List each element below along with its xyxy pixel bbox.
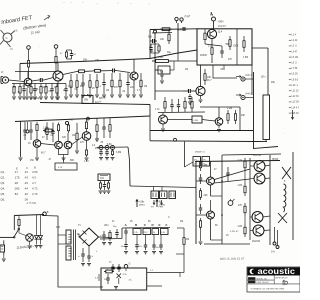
- svg-text:.02: .02: [122, 91, 126, 93]
- wire Q9 base: [72, 137, 83, 145]
- svg-text:Q2,: Q2,: [1, 176, 6, 180]
- transistor Q1: [24, 78, 32, 86]
- svg-text:C: C: [144, 223, 147, 227]
- FET pinout symbol (bottom view): [3, 33, 12, 42]
- svg-text:23K: 23K: [241, 115, 246, 117]
- svg-text:FS: FS: [151, 207, 154, 209]
- wire harness arrow: [292, 110, 294, 119]
- capacitor C18: [82, 74, 84, 83]
- ground: [2, 259, 6, 261]
- wire Q3 emitter join: [133, 85, 135, 94]
- svg-text:DWG 150-001: DWG 150-001: [257, 282, 269, 284]
- svg-text:470: 470: [80, 142, 85, 144]
- input jack J1: [2, 77, 8, 83]
- ground: [99, 158, 103, 160]
- output terminal A: [273, 242, 276, 245]
- svg-text:.45: .45: [24, 181, 28, 185]
- resistor R25: [140, 73, 142, 80]
- svg-text:L8 2N: L8 2N: [292, 74, 298, 76]
- svg-text:2N1540: 2N1540: [252, 241, 261, 243]
- svg-text:27K: 27K: [238, 205, 243, 207]
- node rail tap: [87, 117, 90, 120]
- svg-text:D: D: [11, 47, 14, 51]
- resistor R1: [28, 49, 30, 60]
- wire B+ tick: [211, 12, 213, 16]
- wire bridge bottom: [88, 246, 90, 252]
- wire Q1 collector: [27, 72, 29, 79]
- wire AC left drop: [13, 216, 15, 231]
- ground: [29, 97, 33, 99]
- wire Q17 lead: [250, 230, 253, 232]
- node B+ tap 2: [54, 45, 58, 49]
- svg-text:T1: T1: [78, 225, 81, 227]
- svg-text:1M: 1M: [185, 69, 188, 71]
- svg-text:.05: .05: [100, 142, 104, 144]
- wire driver diag 2: [215, 179, 251, 183]
- ground: [111, 158, 115, 160]
- svg-text:25: 25: [130, 221, 133, 223]
- wire coupling rail: [40, 103, 150, 105]
- svg-text:LDR: LDR: [194, 120, 199, 122]
- svg-text:47: 47: [112, 221, 115, 223]
- svg-text:TOLERANCE ±5% CAP MFD RES: TOLERANCE ±5% CAP MFD RES OHMS: [251, 288, 285, 291]
- svg-text:4.72: 4.72: [32, 187, 38, 191]
- ground: [139, 95, 143, 97]
- wire strip drop C: [145, 235, 147, 243]
- svg-text:1M: 1M: [180, 221, 183, 223]
- svg-text:PRB: PRB: [159, 207, 164, 209]
- svg-text:.02: .02: [73, 54, 77, 56]
- wire reverb arrow 2: [236, 94, 241, 96]
- capacitor C24: [127, 73, 129, 83]
- transistor Q8: [64, 141, 72, 149]
- svg-text:3.3M: 3.3M: [158, 57, 163, 59]
- wire C4 to Q3: [116, 71, 130, 73]
- resistor R16: [70, 74, 72, 81]
- wire Q1 emitter join: [26, 88, 28, 96]
- wire Q1 emitter: [27, 86, 29, 88]
- svg-text:acoustic: acoustic: [258, 267, 296, 276]
- wire far right edge: [292, 152, 294, 240]
- svg-text:mod.: mod.: [177, 29, 183, 32]
- wire PA feed drop: [184, 142, 186, 167]
- svg-text:1M: 1M: [186, 239, 189, 241]
- transistor Q12: [207, 177, 215, 185]
- fuzz switch box: [82, 96, 93, 104]
- wire feed box A: [172, 60, 197, 62]
- svg-text:L14 4.7: L14 4.7: [292, 107, 300, 109]
- wire mid drop: [177, 53, 179, 61]
- svg-text:10K: 10K: [207, 77, 212, 79]
- capacitor C45: [118, 264, 120, 267]
- capacitor C10: [34, 84, 36, 89]
- svg-text:3.3M: 3.3M: [116, 152, 121, 154]
- connector P3: [160, 191, 168, 199]
- node stage2 tap: [26, 130, 29, 133]
- svg-text:45.7: 45.7: [41, 153, 46, 155]
- ground: [132, 95, 136, 97]
- svg-text:.175: .175: [14, 176, 20, 180]
- svg-text:2N508: 2N508: [200, 55, 207, 57]
- svg-text:27+: 27+: [129, 280, 133, 282]
- svg-text:L4 47: L4 47: [292, 51, 298, 53]
- svg-text:Reb.2: Reb.2: [245, 92, 252, 95]
- svg-text:E: E: [159, 223, 161, 227]
- diode D3: [117, 274, 122, 279]
- wire module bottom rail: [150, 130, 253, 132]
- ground: [62, 158, 66, 160]
- wire R66 top: [177, 227, 184, 229]
- resistor R51: [235, 110, 237, 114]
- filter cap C39: [153, 242, 155, 245]
- supply arrow B+: [156, 200, 158, 208]
- ground: [28, 246, 32, 248]
- capacitor C21: [24, 122, 26, 130]
- svg-text:REV. B JAN 15 67: REV. B JAN 15 67: [220, 257, 245, 261]
- resistor R33: [58, 123, 60, 125]
- svg-text:22K: 22K: [62, 137, 67, 139]
- capacitor C13: [51, 84, 53, 89]
- capacitor C19: [189, 94, 191, 97]
- transistor Q5: [196, 86, 205, 95]
- svg-text:22k: 22k: [271, 81, 276, 84]
- wire plug ground: [3, 255, 5, 258]
- svg-text:470K: 470K: [33, 89, 39, 91]
- connector P2: [151, 191, 159, 199]
- ground: [217, 130, 221, 132]
- footswitch arrow 2: [161, 200, 163, 205]
- svg-text:L13 2N: L13 2N: [292, 102, 300, 104]
- capacitor C27: [104, 181, 106, 185]
- svg-text:.28: .28: [14, 181, 18, 185]
- wire terminal riser A: [274, 227, 276, 242]
- resistor R69: [160, 28, 162, 30]
- wire Q12 base: [196, 180, 207, 182]
- ground: [95, 139, 99, 141]
- wire box out: [147, 272, 180, 274]
- wire Q12 emitter: [210, 185, 212, 196]
- wire Q2 collector: [57, 62, 59, 71]
- svg-text:1.5M: 1.5M: [243, 57, 248, 59]
- svg-text:L1 4: L1 4: [292, 35, 297, 37]
- svg-text:.065: .065: [14, 187, 20, 191]
- wire Q2 out: [63, 72, 77, 75]
- capacitor C20: [161, 70, 163, 74]
- wire AC to transformer: [42, 216, 58, 231]
- resistor R49: [184, 97, 186, 102]
- wire recovery rail: [158, 111, 205, 114]
- svg-text:1K: 1K: [196, 161, 199, 163]
- ground bus wire: [58, 230, 103, 287]
- jack J3b: [111, 146, 115, 150]
- mod depth box: [158, 66, 170, 74]
- svg-text:.02: .02: [22, 86, 26, 88]
- ground: [44, 97, 48, 99]
- wire Q2 emitter: [57, 81, 59, 86]
- svg-text:47K: 47K: [114, 87, 119, 89]
- resistor R22: [111, 73, 113, 80]
- capacitor C25: [100, 150, 102, 152]
- wire switch stub: [87, 94, 89, 96]
- svg-text:Q6,: Q6,: [1, 198, 6, 202]
- resistor R6: [13, 84, 15, 87]
- ground: [25, 97, 29, 99]
- resistor R34: [68, 123, 70, 125]
- svg-text:4.7: 4.7: [32, 181, 36, 185]
- svg-text:.43: .43: [24, 170, 28, 174]
- svg-text:1M: 1M: [144, 86, 147, 88]
- ground: [102, 95, 106, 97]
- wire Q8 collector: [67, 133, 69, 141]
- wire terminal riser B: [277, 230, 279, 245]
- svg-text:L3 .0: L3 .0: [292, 46, 298, 48]
- wire socket link: [185, 162, 194, 167]
- ground: [99, 191, 103, 193]
- ground: [88, 95, 92, 97]
- svg-text:.43: .43: [24, 176, 28, 180]
- ground: [18, 97, 22, 99]
- svg-text:G: G: [6, 36, 8, 40]
- ground: [103, 191, 107, 193]
- wire long right rail: [253, 147, 278, 149]
- wire box A right drop: [251, 65, 253, 95]
- wire Q11 collector: [218, 107, 220, 118]
- svg-text:25.2: 25.2: [144, 232, 149, 234]
- resistor R20: [96, 74, 98, 81]
- wire R26 to rail: [211, 58, 213, 63]
- svg-text:(GRN): (GRN): [159, 204, 165, 206]
- svg-text:L6 .0: L6 .0: [292, 63, 298, 65]
- ground: [85, 158, 89, 160]
- wire PA upper stub: [222, 154, 281, 155]
- resistor R67: [104, 271, 106, 273]
- transistor Q14: [254, 161, 265, 172]
- resistor R14: [56, 84, 58, 87]
- bias network box: [101, 268, 147, 290]
- ground: [35, 246, 39, 248]
- ground: [114, 287, 118, 289]
- ground: [12, 97, 16, 99]
- svg-text:+: +: [96, 251, 98, 253]
- resistor R32: [36, 122, 38, 124]
- svg-text:30µ: 30µ: [113, 226, 117, 228]
- node B+ tap 1: [27, 46, 31, 50]
- title cell label 1: [248, 277, 255, 279]
- wire R4-C4: [102, 70, 111, 72]
- svg-text:3.3: 3.3: [95, 278, 99, 280]
- wire bias rail: [200, 106, 240, 108]
- wire PA top rail: [195, 161, 280, 162]
- capacitor C33: [82, 248, 84, 254]
- ground: [33, 97, 37, 99]
- wire Q13 emitter: [210, 219, 212, 240]
- wire drivers to mid: [211, 195, 223, 197]
- svg-text:Q5,: Q5,: [1, 192, 6, 196]
- resistor R2: [55, 48, 57, 56]
- svg-text:1M: 1M: [13, 87, 16, 89]
- annotation arrow: [44, 16, 50, 20]
- wire mod box taps: [155, 69, 158, 71]
- resistor R64: [161, 229, 169, 235]
- transistor Q13: [207, 211, 215, 219]
- wire G stub: [125, 268, 127, 271]
- resistor R68: [158, 44, 160, 46]
- wire stage1 left drop: [19, 64, 21, 81]
- wire module top feed: [150, 28, 197, 31]
- resistor R17: [76, 74, 78, 81]
- wire Q13 collector: [210, 200, 212, 211]
- filter cap C38: [145, 242, 147, 245]
- svg-text:1.5µ: 1.5µ: [208, 46, 213, 48]
- wire strip drop B: [136, 235, 138, 242]
- ground: [50, 97, 54, 99]
- feedback box: [55, 163, 77, 170]
- capacitor C48: [178, 99, 180, 105]
- module box A: [197, 29, 252, 65]
- resistor R27: [204, 29, 206, 33]
- svg-text:220: 220: [95, 59, 100, 62]
- wire AC rail: [14, 215, 44, 216]
- jack J3: [105, 146, 109, 150]
- ground: [105, 158, 109, 160]
- resistor R30b: [168, 31, 170, 34]
- ground: [75, 151, 79, 153]
- resistor R26: [211, 44, 213, 48]
- resistor R2a: [66, 50, 68, 52]
- resistor R23: [119, 73, 121, 80]
- svg-text:1.7k: 1.7k: [134, 232, 138, 234]
- diode D1: [36, 215, 38, 236]
- capacitor C22: [30, 122, 32, 130]
- resistor R9: [30, 84, 32, 87]
- svg-text:4.70: 4.70: [32, 192, 38, 196]
- resistor R35: [86, 119, 88, 122]
- wire stage2 drop ext: [149, 131, 151, 141]
- svg-text:2N5457: 2N5457: [218, 26, 227, 28]
- capacitor C2: [71, 50, 73, 54]
- wire Q5 collector: [200, 65, 202, 86]
- filter cap C37: [136, 242, 138, 245]
- capacitor C24: [103, 118, 105, 127]
- svg-text:1.2K: 1.2K: [84, 161, 89, 163]
- resistor R40: [96, 118, 98, 125]
- wire C3 to Q2: [44, 78, 53, 81]
- svg-text:4.7k: 4.7k: [123, 274, 128, 276]
- wire dc feed: [100, 238, 122, 241]
- resistor R54: [200, 218, 202, 221]
- resistor R61: [133, 229, 141, 235]
- ground: [161, 129, 165, 131]
- ground: [118, 95, 122, 97]
- wire Q10 collector: [162, 112, 164, 115]
- transistor Q4: [207, 29, 216, 38]
- ground: [102, 243, 106, 245]
- svg-text:.05: .05: [23, 135, 27, 137]
- svg-text:150K: 150K: [233, 46, 239, 48]
- acoustic logo crescent: [250, 269, 256, 275]
- wire emitters join: [59, 149, 69, 155]
- wire jack to Q1: [9, 80, 25, 82]
- ground: [126, 95, 130, 97]
- wire Q3 collector: [133, 59, 135, 72]
- capacitor C8: [23, 84, 25, 89]
- svg-text:2.2K: 2.2K: [43, 87, 48, 89]
- title row divider 1: [247, 279, 274, 281]
- wire stage2 left edge: [20, 122, 22, 158]
- capacitor C47: [171, 99, 173, 105]
- wire right drop: [239, 107, 241, 131]
- wire strip drop E: [160, 235, 162, 243]
- svg-text:L7 56: L7 56: [292, 68, 298, 70]
- svg-text:56K: 56K: [226, 44, 231, 46]
- wire strip drop D: [153, 235, 155, 243]
- capacitor C42: [107, 274, 109, 278]
- wire plug lead: [0, 236, 14, 238]
- svg-text:2.7: 2.7: [150, 270, 154, 272]
- title cell label 2: [248, 281, 255, 283]
- output terminal B: [276, 246, 279, 249]
- svg-text:47+: 47+: [109, 262, 113, 264]
- ground: [39, 97, 43, 99]
- svg-text:47: 47: [214, 169, 217, 171]
- wire parallel feed: [152, 32, 172, 35]
- wire Q10 emitter: [162, 124, 164, 128]
- resistor R57: [244, 203, 246, 206]
- svg-text:2N508 ×4: 2N508 ×4: [195, 151, 205, 154]
- svg-text:3.3k: 3.3k: [161, 232, 165, 234]
- wire reverb arrow 1: [236, 76, 241, 78]
- capacitor C16: [221, 46, 223, 51]
- svg-text:.46: .46: [24, 192, 28, 196]
- ground: [64, 97, 68, 99]
- svg-text:1.8K: 1.8K: [238, 226, 243, 228]
- svg-text:1M: 1M: [72, 135, 75, 137]
- ground: [135, 252, 139, 254]
- speaker X mark 1: [282, 167, 291, 179]
- svg-text:C: C: [168, 217, 170, 219]
- ground: [22, 97, 26, 99]
- wire B+ drop: [213, 21, 215, 29]
- wire stage2 drop: [149, 116, 151, 131]
- wire Q16 lead: [250, 216, 252, 218]
- wire module feed drop: [149, 30, 151, 59]
- wire Q6 collector: [36, 133, 38, 140]
- svg-text:Reb.1: Reb.1: [245, 74, 252, 77]
- svg-text:.09: .09: [24, 198, 28, 202]
- resistor R31: [204, 69, 206, 74]
- resistor R63: [152, 229, 159, 235]
- svg-text:4.50: 4.50: [32, 170, 38, 174]
- wire Q9 emitter: [86, 140, 88, 148]
- capacitor C18: [183, 90, 188, 92]
- svg-text:2.2Ω .47: 2.2Ω .47: [230, 231, 239, 233]
- wire module right edge: [253, 72, 255, 149]
- resistor R58: [244, 224, 246, 227]
- wire LDR out: [202, 120, 215, 122]
- capacitor C34: [88, 252, 90, 256]
- svg-text:68: 68: [215, 225, 218, 227]
- reverb jack J5: [241, 95, 245, 99]
- diode D2: [40, 215, 42, 236]
- svg-text:.17: .17: [14, 170, 18, 174]
- svg-text:18K: 18K: [204, 165, 209, 167]
- resistor R50: [191, 97, 193, 102]
- svg-text:4.7: 4.7: [137, 90, 141, 92]
- wire PA out column: [269, 155, 271, 245]
- svg-text:L10 .1: L10 .1: [292, 85, 299, 87]
- svg-text:.47: .47: [48, 159, 52, 161]
- output choke coil: [284, 184, 286, 212]
